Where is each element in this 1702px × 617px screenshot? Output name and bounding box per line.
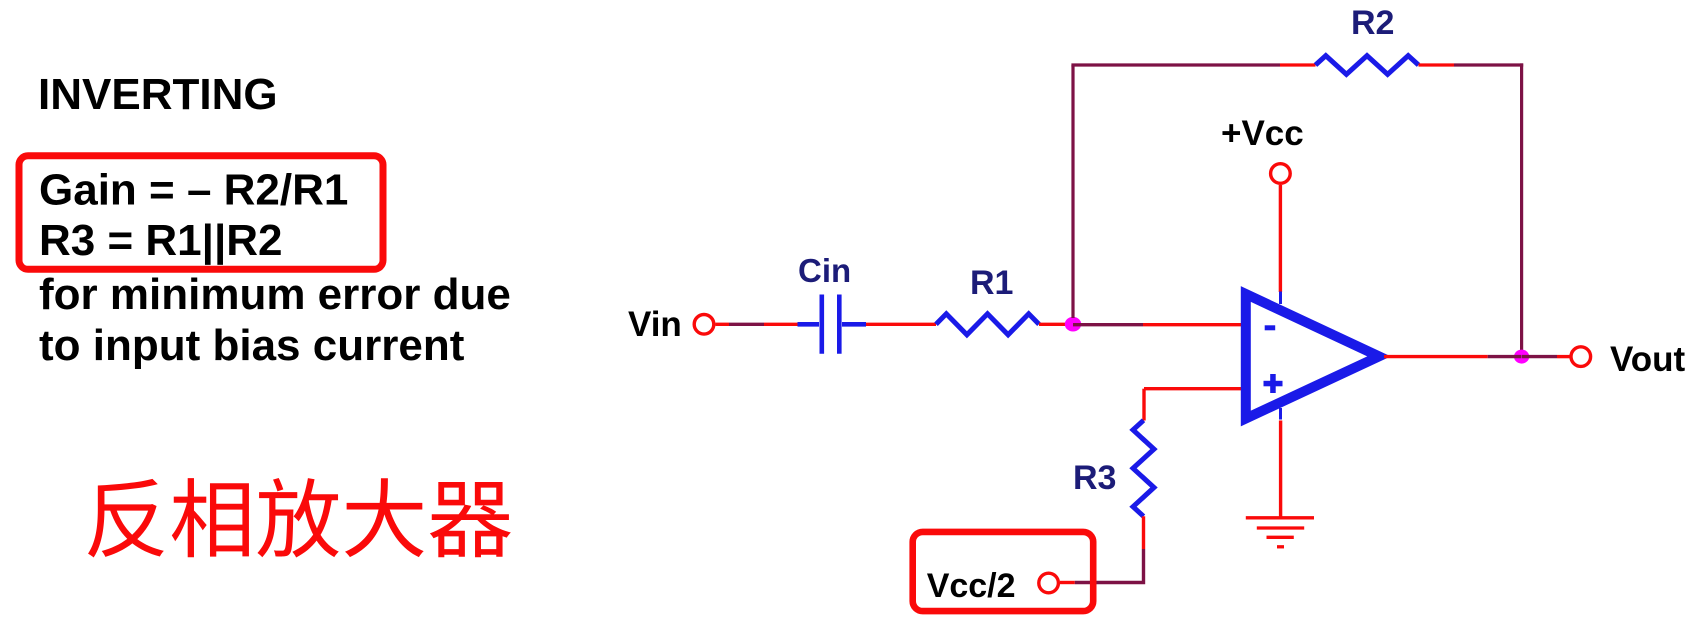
op-amp power pin stub bottom bbox=[1279, 408, 1282, 420]
svg-text:Gain = – R2/R1: Gain = – R2/R1 bbox=[39, 166, 348, 215]
wire summing node to inverting input bbox=[1073, 323, 1248, 326]
wire R1 to summing node bbox=[1039, 323, 1073, 326]
resistor R2 bbox=[1316, 56, 1419, 75]
wire feedback right vertical down to output node bbox=[1520, 63, 1523, 351]
wire op-amp output bbox=[1384, 355, 1521, 358]
svg-text:R2: R2 bbox=[1351, 4, 1394, 42]
op-amp minus sign bbox=[1265, 325, 1276, 330]
resistor R3 bbox=[1133, 420, 1154, 516]
wire Vin to Cin bbox=[716, 323, 799, 326]
wire R2 to feedback right vertical bbox=[1419, 63, 1524, 66]
terminal +Vcc circle bbox=[1271, 164, 1291, 184]
terminal Vcc/2 circle bbox=[1039, 573, 1059, 593]
svg-text:Vout: Vout bbox=[1610, 340, 1686, 379]
op-amp power pin stub top bbox=[1279, 292, 1282, 305]
svg-text:R1: R1 bbox=[970, 264, 1013, 302]
svg-text:+Vcc: +Vcc bbox=[1221, 114, 1304, 153]
wire output node to Vout terminal bbox=[1522, 355, 1571, 358]
wire feedback left vertical bbox=[1071, 65, 1074, 318]
op-amp plus sign bbox=[1264, 374, 1283, 393]
terminal Vout circle bbox=[1571, 347, 1591, 367]
svg-text:to input bias current: to input bias current bbox=[39, 321, 465, 370]
wire op-amp to ground bbox=[1279, 421, 1282, 518]
op-amp U1 triangle bbox=[1246, 294, 1379, 419]
chinese caption (inverting amplifier) bbox=[88, 478, 511, 558]
node summing junction dot bbox=[1065, 317, 1081, 332]
capacitor C1 Cin bbox=[798, 295, 867, 354]
svg-text:R3: R3 bbox=[1073, 459, 1116, 497]
ground symbol bbox=[1246, 518, 1314, 547]
node output junction dot bbox=[1514, 350, 1529, 364]
svg-text:for minimum error due: for minimum error due bbox=[39, 270, 511, 319]
box Vcc/2 source bbox=[913, 532, 1093, 611]
wire +Vcc to op-amp bbox=[1279, 185, 1282, 292]
svg-text:Vin: Vin bbox=[628, 305, 682, 344]
resistor R1 bbox=[936, 314, 1039, 335]
svg-text:INVERTING: INVERTING bbox=[38, 70, 278, 119]
wire R3 to Vcc/2 bbox=[1060, 516, 1144, 582]
wire feedback top run bbox=[1071, 63, 1315, 66]
terminal Vin circle bbox=[694, 315, 714, 335]
svg-text:Vcc/2: Vcc/2 bbox=[927, 567, 1016, 605]
svg-text:R3 = R1||R2: R3 = R1||R2 bbox=[39, 216, 283, 266]
wire to non-inverting input bbox=[1144, 389, 1248, 421]
svg-text:Cin: Cin bbox=[798, 252, 851, 289]
wire Cin to R1 bbox=[866, 323, 936, 326]
red highlight box around gain formulas bbox=[19, 156, 383, 269]
